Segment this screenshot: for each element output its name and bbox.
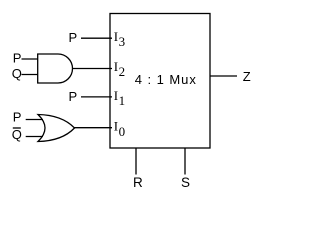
svg-text:R: R [133,175,143,190]
svg-text:Q: Q [12,66,22,81]
wire Q input to AND [22,74,38,76]
wire P input to AND [22,58,38,60]
svg-text:1: 1 [119,93,126,108]
svg-text:S: S [181,175,190,190]
svg-text:I: I [114,119,118,134]
wire P to I1 [81,96,112,98]
wire Qbar input to OR [26,136,43,138]
svg-text:I: I [114,59,118,74]
wire AND output to I2 [73,68,113,70]
wire S select [184,148,186,175]
wire R select [135,148,137,175]
svg-text:4 : 1 Mux: 4 : 1 Mux [135,72,197,87]
overline of Qbar [13,127,21,129]
svg-text:I: I [114,29,118,44]
AND gate G1 [38,54,73,83]
wire Z output [210,75,237,77]
mux box U1 [110,14,210,149]
svg-text:P: P [69,89,78,104]
wire OR output to I0 [75,127,113,129]
svg-text:Q: Q [12,127,22,142]
svg-text:2: 2 [119,64,126,79]
svg-text:Z: Z [243,69,251,84]
wire P to I3 [81,37,112,39]
svg-text:I: I [114,88,118,103]
OR gate G2 [38,115,75,142]
svg-text:P: P [13,51,22,66]
svg-text:P: P [13,110,22,125]
wire P input to OR [26,119,43,121]
svg-text:P: P [69,30,78,45]
svg-text:0: 0 [119,124,126,139]
svg-text:3: 3 [119,34,126,49]
